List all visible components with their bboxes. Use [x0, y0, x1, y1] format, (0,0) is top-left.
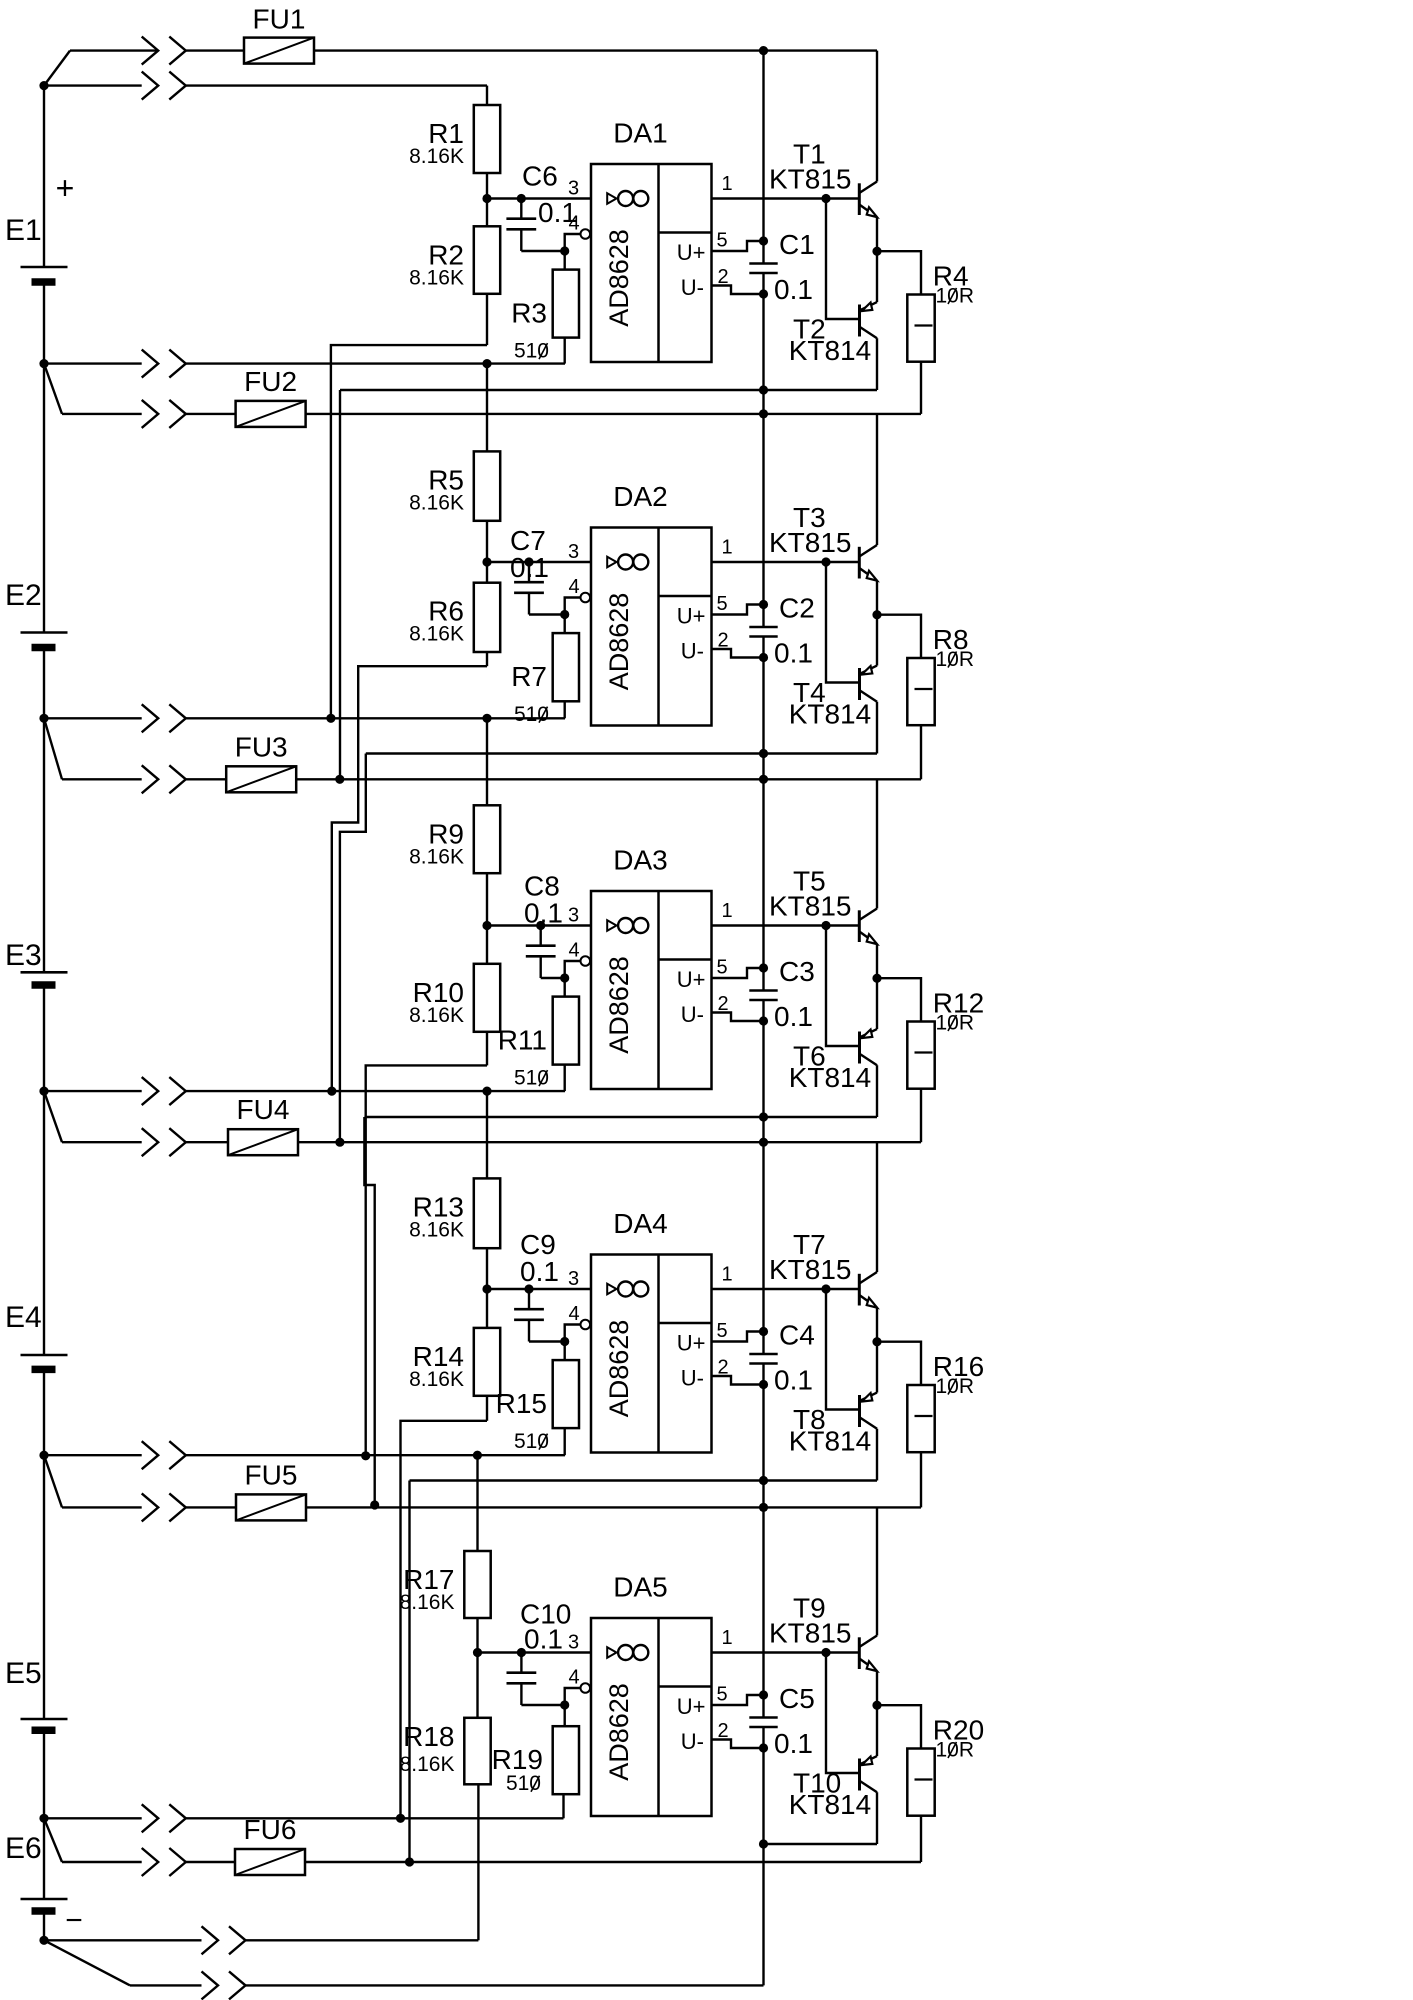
svg-text:8.16K: 8.16K [409, 266, 464, 289]
node pin 5 supply [759, 236, 768, 245]
node divider midpoint stage 2 [482, 557, 491, 566]
svg-text:U+: U+ [677, 1694, 706, 1719]
resistor R6 [474, 583, 500, 652]
resistor R15 [564, 1342, 566, 1361]
resistor R16 [907, 1385, 934, 1452]
wire fuse line 4 left [62, 1141, 142, 1143]
node rail / main vertical [759, 1476, 768, 1485]
svg-text:U-: U- [681, 639, 704, 664]
connector chevrons FU6 line [142, 1848, 159, 1876]
svg-text:4: 4 [568, 940, 579, 962]
pin 4 inverted bubble [581, 956, 591, 966]
svg-text:E6: E6 [5, 1832, 42, 1865]
wire divider node to op-amp pin 3 [487, 1288, 591, 1290]
wire battery plus sense line [44, 84, 142, 86]
wire tap 2 to R9 top [486, 718, 488, 805]
svg-text:−: − [65, 1904, 83, 1937]
op-amp symbol triangle-infinity [607, 193, 616, 204]
node rail / main vertical [759, 1839, 768, 1848]
transistor T1 (NPN) [858, 183, 861, 215]
connector chevrons tap 4 sense [142, 1441, 159, 1469]
svg-text:KT815: KT815 [769, 1618, 852, 1649]
svg-text:R3: R3 [511, 298, 547, 329]
resistor R7 [564, 615, 566, 634]
wire tap 2 sense line [44, 717, 142, 719]
wire pin 4 [565, 234, 581, 251]
wire R11 bottom to tap line [564, 1065, 566, 1092]
svg-text:0.1: 0.1 [524, 1624, 563, 1655]
wire divider node to R14 [486, 1289, 488, 1328]
svg-text:U+: U+ [677, 967, 706, 992]
svg-text:1: 1 [721, 900, 732, 922]
node pin 2 supply [759, 289, 768, 298]
fuse FU2 [236, 401, 306, 427]
wire R14 bottom jog [486, 1396, 488, 1421]
fuse FU3 [226, 766, 296, 792]
transistor T7 (NPN) [858, 1274, 861, 1306]
wire stage 5 negative rail [764, 1843, 878, 1845]
fuse FU6 [235, 1849, 305, 1875]
wire base T2 [826, 199, 860, 320]
node battery tap 5 [39, 1814, 48, 1823]
wire divider node to op-amp pin 3 [487, 924, 591, 926]
wire R19 bottom to tap line [562, 1794, 564, 1818]
node pin4 junction [560, 973, 569, 982]
resistor R20 [907, 1749, 934, 1816]
svg-text:C3: C3 [779, 956, 815, 987]
wire R12 bottom to fuse line [920, 1089, 922, 1143]
wire stage 4 negative rail [410, 1479, 878, 1481]
wire tap 3 to R13 top [486, 1091, 488, 1178]
wire divider node to op-amp pin 3 [487, 197, 591, 199]
node tap 1 / R5 feed [482, 359, 491, 368]
wire R6 bottom to tap 3 sense [332, 666, 487, 1091]
node rail / main vertical [759, 1112, 768, 1121]
svg-text:KT815: KT815 [769, 891, 852, 922]
wire tap 4 to R17 top [476, 1455, 478, 1551]
svg-text:4: 4 [568, 1667, 579, 1689]
wire stage 1 negative rail [340, 389, 877, 391]
wire R16 bottom to fuse line [920, 1452, 922, 1507]
fuse FU1 [244, 38, 314, 64]
wire FU1 line left [70, 49, 158, 51]
svg-text:10R: 10R [936, 285, 975, 308]
node pin4 junction [560, 1337, 569, 1346]
battery cell E4 [21, 1354, 68, 1357]
node emitter junction stage 2 [872, 610, 881, 619]
svg-text:E1: E1 [5, 214, 42, 247]
pin 4 inverted bubble [581, 1683, 591, 1693]
node divider midpoint stage 1 [482, 194, 491, 203]
node B3 end [370, 1500, 379, 1509]
node main vertical / FU5 line [759, 1503, 768, 1512]
wire R15 bottom to tap line [564, 1428, 566, 1455]
wire R10 bottom to tap 4 sense [366, 1065, 487, 1455]
node base branch [821, 921, 830, 930]
resistor R13 [474, 1178, 500, 1248]
svg-text:DA2: DA2 [613, 481, 667, 512]
svg-text:KT814: KT814 [789, 1426, 872, 1457]
wire divider node to R6 [486, 562, 488, 583]
node base branch [821, 1648, 830, 1657]
op-amp DA3 body [591, 891, 712, 1089]
resistor R2 [474, 226, 500, 293]
resistor R3 [564, 251, 566, 270]
transistor T6 (PNP) [858, 1032, 861, 1064]
svg-text:FU1: FU1 [253, 4, 306, 35]
node B4 end [405, 1857, 414, 1866]
transistor T9 (NPN) [858, 1637, 861, 1669]
svg-text:R11: R11 [498, 1025, 547, 1056]
wire stage 3 rail to FU5 line [364, 1117, 374, 1505]
wire R20 bottom to fuse line [920, 1816, 922, 1862]
node base branch [821, 1284, 830, 1293]
resistor R5 [474, 451, 500, 520]
wire op-amp pin 1 to base node [712, 924, 859, 926]
wire op-amp pin 5 [712, 241, 764, 251]
wire fuse line 2 left [62, 413, 142, 415]
wire chevron gap to FU4 [186, 1141, 228, 1143]
fuse FU4 [228, 1129, 298, 1155]
node battery plus [39, 81, 48, 90]
wire chevron gap to FU1 [186, 49, 244, 51]
wire op-amp pin 2 [712, 1376, 764, 1385]
svg-text:U+: U+ [677, 1331, 706, 1356]
svg-text:3: 3 [568, 541, 579, 563]
battery cell E6 [21, 1898, 68, 1901]
svg-text:10R: 10R [936, 1012, 975, 1035]
wire divider node to R10 [486, 926, 488, 964]
svg-text:C6: C6 [522, 161, 558, 192]
connector chevrons bottom power line [202, 1971, 219, 1999]
connector chevrons tap 3 sense [142, 1077, 159, 1105]
svg-text:FU6: FU6 [244, 1814, 297, 1845]
wire stage 2 negative rail [366, 752, 877, 754]
wire op-amp pin 1 to base node [712, 1651, 859, 1653]
battery cell E1 [21, 266, 68, 269]
svg-text:0.1: 0.1 [524, 898, 563, 929]
svg-text:8.16K: 8.16K [409, 1368, 464, 1391]
svg-text:5: 5 [716, 957, 727, 979]
wire R14 bottom to tap 5 sense [401, 1421, 488, 1819]
wire FU1 to T1 collector column [314, 49, 877, 51]
wire divider node to R2 [486, 199, 488, 227]
node battery tap 3 [39, 1087, 48, 1096]
node main vertical / FU3 line [759, 775, 768, 784]
op-amp DA4 body [591, 1255, 712, 1453]
svg-text:FU4: FU4 [237, 1094, 290, 1125]
connector chevrons tap 5 sense [142, 1804, 159, 1832]
svg-text:R18: R18 [403, 1721, 454, 1752]
connector chevrons tap 2 sense [142, 704, 159, 732]
wire tap 4 sense line [44, 1454, 142, 1456]
svg-text:10R: 10R [936, 1739, 975, 1762]
svg-text:AD8628: AD8628 [604, 593, 634, 691]
battery cell E5 [21, 1718, 68, 1721]
node base branch [821, 194, 830, 203]
battery cell E3 [21, 971, 68, 974]
resistor R8 [907, 658, 934, 725]
svg-text:8.16K: 8.16K [400, 1753, 455, 1776]
wire R2 bottom jog [486, 294, 488, 345]
op-amp symbol triangle-infinity [607, 1647, 616, 1658]
wire emitter junction to R20 [877, 1705, 921, 1748]
wire fuse line 6 left [62, 1861, 142, 1863]
wire R4 bottom to fuse line [920, 362, 922, 414]
battery string vertical wire [43, 86, 45, 267]
capacitor C4 [749, 1353, 777, 1356]
svg-text:0.1: 0.1 [774, 1001, 813, 1032]
svg-text:FU2: FU2 [244, 366, 297, 397]
transistor T2 (PNP) [858, 305, 861, 337]
node rail / main vertical [759, 749, 768, 758]
capacitor C7 [528, 562, 530, 582]
node A4 end [396, 1814, 405, 1823]
wire stage 4 rail to FU6 line [408, 1481, 410, 1863]
svg-text:DA5: DA5 [613, 1572, 667, 1603]
svg-text:KT814: KT814 [789, 1789, 872, 1820]
node pin 5 supply [759, 600, 768, 609]
node FU1 line / C1 column [759, 46, 768, 55]
wire base T4 [826, 562, 860, 683]
fuse FU5 [236, 1494, 306, 1520]
node main vertical / FU2 line [759, 409, 768, 418]
capacitor C6 [520, 199, 522, 219]
svg-text:8.16K: 8.16K [409, 1218, 464, 1241]
wire chevron gap to FU6 [186, 1861, 235, 1863]
svg-text:8.16K: 8.16K [409, 623, 464, 646]
wire pin 4 [565, 1688, 581, 1705]
wire divider node to op-amp pin 3 [478, 1651, 592, 1653]
svg-text:4: 4 [568, 213, 579, 235]
node divider midpoint stage 3 [482, 921, 491, 930]
svg-text:E2: E2 [5, 579, 42, 612]
svg-text:2: 2 [717, 266, 728, 288]
svg-text:2: 2 [717, 1357, 728, 1379]
svg-text:2: 2 [717, 630, 728, 652]
wire tap 1 sense line [44, 362, 142, 364]
wire R13 bottom to divider node [486, 1248, 488, 1289]
connector chevrons tap 1 sense [142, 350, 159, 378]
wire diagonal battery minus to bottom line [44, 1940, 130, 1985]
wire R3 bottom to tap line [564, 338, 566, 364]
node C6 tap [517, 194, 526, 203]
wire diagonal to FU1 line [44, 51, 70, 86]
svg-text:1: 1 [721, 537, 732, 559]
pin 4 inverted bubble [581, 593, 591, 603]
wire op-amp pin 2 [712, 1013, 764, 1022]
svg-text:5: 5 [716, 230, 727, 252]
node emitter junction stage 3 [872, 974, 881, 983]
node battery tap 1 [39, 359, 48, 368]
wire tap 5 sense line [44, 1817, 142, 1819]
node rail / main vertical [759, 385, 768, 394]
pin 4 inverted bubble [581, 1320, 591, 1330]
svg-text:AD8628: AD8628 [604, 956, 634, 1054]
transistor T5 (NPN) [858, 910, 861, 942]
wire diagonal tap 1 to fuse line [44, 364, 62, 414]
svg-text:DA4: DA4 [613, 1208, 667, 1239]
svg-text:1: 1 [721, 1264, 732, 1286]
svg-text:1: 1 [721, 173, 732, 195]
svg-text:1: 1 [721, 1627, 732, 1649]
svg-text:0.1: 0.1 [774, 1728, 813, 1759]
svg-text:8.16K: 8.16K [409, 1004, 464, 1027]
connector chevrons battery minus sense [202, 1926, 219, 1954]
node pin4 junction [560, 1700, 569, 1709]
svg-text:8.16K: 8.16K [409, 845, 464, 868]
wire op-amp pin 5 [712, 605, 764, 615]
connector chevrons FU5 line [142, 1493, 159, 1521]
svg-text:2: 2 [717, 1720, 728, 1742]
svg-text:U-: U- [681, 1366, 704, 1391]
wire op-amp pin 2 [712, 286, 764, 295]
resistor R4 [907, 295, 934, 362]
wire battery minus sense line [44, 1939, 202, 1941]
node pin 2 supply [759, 1016, 768, 1025]
node C8 tap [536, 921, 545, 930]
node tap 3 / R13 feed [482, 1087, 491, 1096]
wire diagonal tap 2 to fuse line [44, 718, 62, 779]
svg-text:R15: R15 [496, 1388, 547, 1419]
svg-text:E4: E4 [5, 1301, 42, 1334]
svg-text:KT814: KT814 [789, 699, 872, 730]
wire FU4 output to R12 bottom corner [298, 1141, 921, 1143]
op-amp symbol triangle-infinity [607, 920, 616, 931]
wire R8 bottom to fuse line [920, 725, 922, 779]
svg-text:AD8628: AD8628 [604, 229, 634, 327]
node B2 end [335, 1138, 344, 1147]
svg-text:U+: U+ [677, 240, 706, 265]
capacitor C2 [749, 626, 777, 629]
svg-text:KT814: KT814 [789, 1062, 872, 1093]
transistor T10 (PNP) [858, 1759, 861, 1791]
wire stage 1 rail to FU3 line [339, 390, 341, 779]
node B1 end [335, 775, 344, 784]
op-amp DA1 body [591, 164, 712, 362]
wire pin 4 [565, 1325, 581, 1342]
svg-text:KT814: KT814 [789, 335, 872, 366]
wire tap 1 to R5 top [486, 364, 488, 452]
op-amp DA5 body [591, 1618, 712, 1816]
wire base T10 [826, 1653, 860, 1774]
node pin4 junction [560, 246, 569, 255]
capacitor C1 [749, 262, 777, 265]
svg-text:KT815: KT815 [769, 1254, 852, 1285]
resistor R11 [564, 978, 566, 997]
node A2 end [327, 1087, 336, 1096]
node pin 2 supply [759, 1380, 768, 1389]
wire base T6 [826, 926, 860, 1047]
svg-text:KT815: KT815 [769, 164, 852, 195]
wire FU6 output line [305, 1861, 921, 1863]
wire divider node to R18 [476, 1653, 478, 1718]
wire divider node to op-amp pin 3 [487, 561, 591, 563]
wire R1 bottom to divider node [486, 173, 488, 199]
svg-text:U-: U- [681, 1002, 704, 1027]
svg-text:R19: R19 [492, 1744, 543, 1775]
resistor R10 [474, 964, 500, 1032]
resistor R1 [474, 105, 500, 173]
wire op-amp pin 1 to base node [712, 1288, 859, 1290]
wire emitter junction to R8 [877, 615, 921, 658]
wire base T8 [826, 1289, 860, 1410]
capacitor C10 [520, 1653, 522, 1673]
wire emitter junction to R12 [877, 978, 921, 1021]
svg-text:0.1: 0.1 [510, 552, 549, 583]
node emitter junction stage 4 [872, 1337, 881, 1346]
wire emitter junction to R4 [877, 251, 921, 294]
pin 4 inverted bubble [581, 229, 591, 239]
node battery tap 2 [39, 714, 48, 723]
capacitor C5 [749, 1716, 777, 1719]
wire R2 bottom to tap 2 sense [331, 345, 487, 718]
op-amp symbol triangle-infinity [607, 557, 616, 568]
connector chevrons FU1 line [142, 37, 159, 65]
svg-text:5: 5 [716, 593, 727, 615]
svg-text:+: + [56, 170, 75, 206]
node pin 5 supply [759, 1327, 768, 1336]
node battery minus [39, 1936, 48, 1945]
wire R7 bottom to tap line [564, 701, 566, 718]
node pin 2 supply [759, 653, 768, 662]
node emitter junction stage 1 [872, 247, 881, 256]
wire pin 4 [565, 598, 581, 615]
wire op-amp pin 2 [712, 1740, 764, 1749]
resistor R17 [464, 1551, 490, 1618]
wire R6 bottom jog [486, 652, 488, 666]
transistor T3 (NPN) [858, 547, 861, 579]
wire stage 2 rail to FU4 line [340, 754, 366, 1143]
capacitor C3 [749, 989, 777, 992]
wire R5 bottom to divider node [486, 521, 488, 562]
wire emitter junction to R16 [877, 1342, 921, 1385]
svg-text:8.16K: 8.16K [400, 1591, 455, 1614]
svg-text:AD8628: AD8628 [604, 1320, 634, 1418]
svg-text:5: 5 [716, 1684, 727, 1706]
connector chevrons FU4 line [142, 1128, 159, 1156]
svg-text:U-: U- [681, 1729, 704, 1754]
svg-text:4: 4 [568, 576, 579, 598]
node base branch [821, 557, 830, 566]
svg-text:5: 5 [716, 1320, 727, 1342]
svg-text:C1: C1 [779, 229, 815, 260]
wire main supply vertical [762, 51, 764, 264]
svg-text:FU3: FU3 [235, 731, 288, 762]
svg-text:DA1: DA1 [613, 118, 667, 149]
node pin 5 supply [759, 1690, 768, 1699]
wire R18 bottom to battery minus sense [477, 1784, 479, 1940]
svg-text:0.1: 0.1 [774, 274, 813, 305]
svg-text:3: 3 [568, 1632, 579, 1654]
node A3 end [361, 1451, 370, 1460]
connector chevrons battery plus sense [142, 72, 159, 100]
node tap 2 / R9 feed [482, 714, 491, 723]
wire stage 3 negative rail [364, 1116, 877, 1118]
wire diagonal tap 4 to fuse line [44, 1455, 62, 1507]
wire diagonal tap 3 to fuse line [44, 1091, 62, 1142]
svg-text:3: 3 [568, 905, 579, 927]
svg-text:10R: 10R [936, 648, 975, 671]
svg-text:8.16K: 8.16K [409, 491, 464, 514]
wire op-amp pin 5 [712, 968, 764, 978]
wire op-amp pin 5 [712, 1695, 764, 1705]
capacitor C9 [528, 1289, 530, 1309]
svg-text:E5: E5 [5, 1657, 42, 1690]
wire FU3 output to R8 bottom corner [296, 778, 921, 780]
resistor R19 [564, 1705, 566, 1726]
wire op-amp pin 1 to base node [712, 561, 859, 563]
